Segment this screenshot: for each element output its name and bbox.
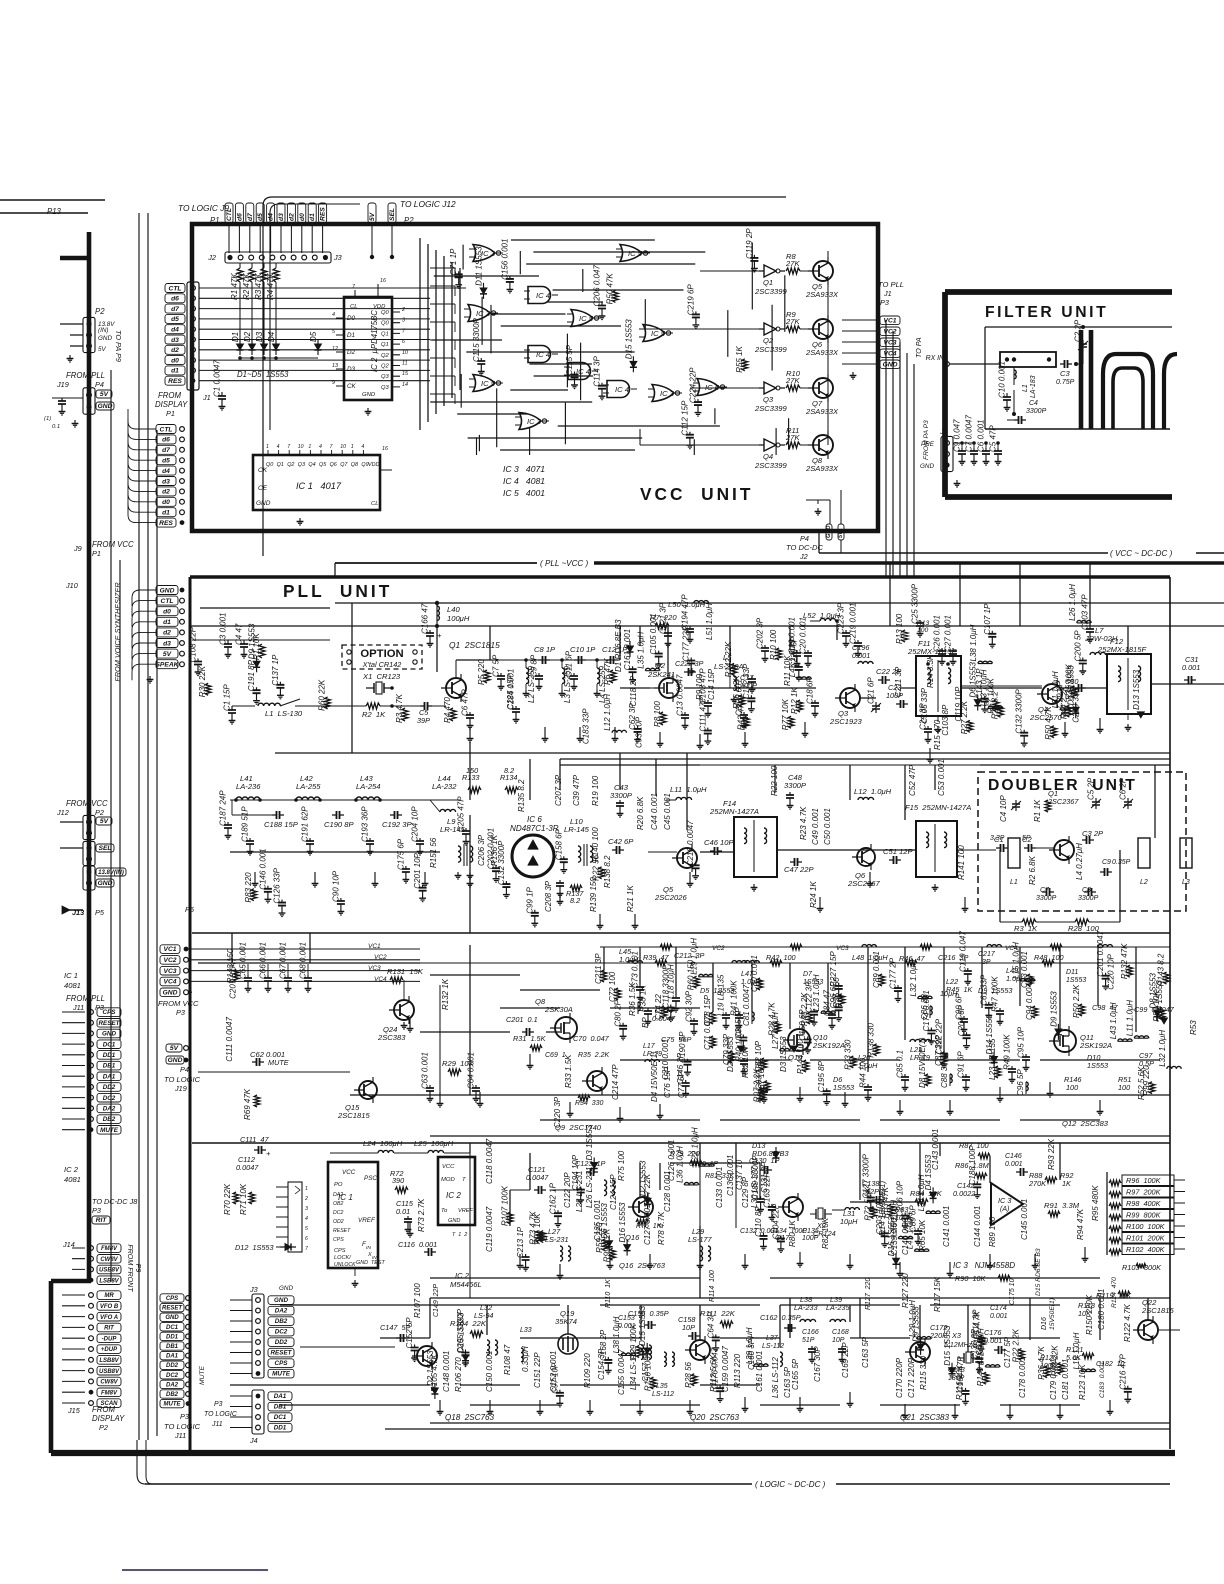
svg-text:CW8V: CW8V (100, 1380, 118, 1386)
svg-text:C50 0.001: C50 0.001 (823, 808, 832, 845)
svg-text:R113 220: R113 220 (733, 1353, 742, 1388)
svg-text:DB2: DB2 (166, 1392, 179, 1398)
svg-text:C229 33P: C229 33P (1071, 687, 1080, 723)
svg-text:C126 33P: C126 33P (273, 867, 282, 903)
svg-text:FILTER UNIT: FILTER UNIT (985, 304, 1108, 321)
svg-text:2SK30A: 2SK30A (544, 1005, 573, 1014)
svg-text:1K: 1K (1062, 1179, 1072, 1188)
svg-text:BP: BP (641, 1017, 650, 1028)
svg-text:P4: P4 (800, 534, 809, 543)
svg-text:IC 6: IC 6 (527, 815, 542, 824)
svg-text:C189 3300P: C189 3300P (751, 1155, 760, 1200)
svg-text:R100 100K: R100 100K (1126, 1222, 1166, 1231)
svg-text:L12 1.0μH: L12 1.0μH (603, 694, 612, 731)
svg-text:1: 1 (266, 444, 269, 450)
svg-text:R109 220: R109 220 (583, 1353, 592, 1388)
svg-text:X1 CR123: X1 CR123 (362, 672, 401, 681)
svg-text:RX IN: RX IN (926, 355, 944, 362)
svg-text:C5 2P: C5 2P (1087, 777, 1096, 800)
svg-text:C201 0.1: C201 0.1 (506, 1015, 538, 1024)
svg-text:D12 1S553: D12 1S553 (235, 1243, 274, 1252)
svg-text:GND: GND (920, 463, 934, 470)
svg-text:C6 0.001: C6 0.001 (977, 420, 986, 452)
svg-text:C161 0.001: C161 0.001 (623, 629, 632, 670)
svg-text:C146 0.001: C146 0.001 (258, 848, 267, 889)
svg-text:R3 4.7K: R3 4.7K (395, 693, 404, 723)
svg-text:C67 0.001: C67 0.001 (279, 942, 288, 979)
svg-text:C148 0.001: C148 0.001 (442, 1351, 451, 1392)
svg-text:C143 1P: C143 1P (975, 668, 984, 700)
svg-text:R28 56: R28 56 (684, 1361, 693, 1387)
svg-text:R55 1K: R55 1K (735, 345, 744, 372)
svg-text:3300P: 3300P (784, 781, 807, 790)
svg-text:C215 5P: C215 5P (734, 1007, 743, 1039)
svg-text:R107 100K: R107 100K (500, 1185, 509, 1226)
svg-text:C177 2P: C177 2P (889, 957, 898, 989)
svg-text:C166: C166 (802, 1329, 819, 1336)
svg-text:-DUP: -DUP (102, 1336, 118, 1342)
svg-text:R102 400K: R102 400K (1126, 1245, 1166, 1254)
svg-text:DISPLAY: DISPLAY (155, 400, 188, 409)
svg-text:L19 LB-135: L19 LB-135 (717, 974, 726, 1016)
svg-text:IC 5: IC 5 (705, 383, 720, 392)
svg-text:3300P: 3300P (610, 791, 633, 800)
svg-text:d4: d4 (171, 327, 179, 334)
svg-text:C61 33P: C61 33P (979, 974, 988, 1006)
svg-text:DC1: DC1 (103, 1041, 116, 1048)
svg-text:5: 5 (305, 1226, 308, 1232)
svg-text:LA-236: LA-236 (236, 782, 261, 791)
svg-text:D3: D3 (347, 366, 356, 373)
svg-text:D1~D5 1S553: D1~D5 1S553 (237, 370, 289, 379)
svg-text:GND: GND (448, 1218, 460, 1224)
svg-text:VC3: VC3 (836, 945, 849, 952)
svg-text:51P: 51P (802, 1337, 815, 1344)
svg-text:C95 10P: C95 10P (1017, 1026, 1026, 1058)
svg-text:DB2: DB2 (275, 1318, 288, 1325)
svg-text:C91 6P: C91 6P (957, 1051, 966, 1078)
svg-text:d6: d6 (162, 437, 170, 444)
svg-text:OB2: OB2 (333, 1201, 343, 1207)
svg-text:C85 0.1: C85 0.1 (896, 1050, 905, 1078)
svg-text:R50 2.2K: R50 2.2K (1072, 984, 1081, 1018)
svg-text:C64 0.001: C64 0.001 (467, 1052, 476, 1089)
svg-text:R4 47K: R4 47K (266, 273, 275, 300)
svg-text:J2: J2 (207, 253, 216, 262)
svg-text:16: 16 (382, 446, 388, 452)
svg-text:6: 6 (305, 1236, 308, 1242)
svg-text:CW8V: CW8V (100, 1257, 118, 1263)
svg-text:Q2: Q2 (381, 353, 390, 359)
svg-text:P1: P1 (92, 549, 101, 558)
svg-text:C118 0.0047: C118 0.0047 (485, 1138, 494, 1184)
svg-text:L40: L40 (447, 605, 460, 614)
svg-text:GND: GND (98, 335, 112, 342)
svg-text:C111 0.0047: C111 0.0047 (225, 1017, 234, 1062)
svg-text:DC1: DC1 (166, 1325, 179, 1331)
svg-text:CTL: CTL (169, 285, 182, 292)
svg-text:R122 4.7K: R122 4.7K (1123, 1304, 1132, 1342)
svg-text:R32 10K: R32 10K (741, 1046, 750, 1078)
svg-text:C219 6P: C219 6P (686, 284, 695, 316)
svg-text:3300P: 3300P (1078, 895, 1099, 902)
svg-text:R71 10K: R71 10K (239, 1183, 248, 1215)
svg-text:TO LOGIC: TO LOGIC (164, 1422, 201, 1431)
svg-text:C206 3P: C206 3P (477, 834, 486, 866)
svg-text:d1: d1 (309, 213, 316, 221)
svg-text:VCC: VCC (342, 1169, 356, 1176)
svg-text:R21 1K: R21 1K (626, 885, 635, 912)
svg-text:DB1: DB1 (103, 1063, 116, 1070)
svg-text:2SA933X: 2SA933X (805, 407, 839, 416)
svg-text:L32 1.0μH: L32 1.0μH (909, 960, 918, 997)
svg-text:27K: 27K (785, 376, 800, 385)
svg-text:C205 3300P: C205 3300P (456, 1308, 465, 1353)
svg-text:C206 0.047: C206 0.047 (593, 265, 602, 307)
svg-text:800K: 800K (1144, 1263, 1162, 1272)
svg-text:R5 220: R5 220 (477, 659, 486, 685)
svg-text:FROM VCC: FROM VCC (158, 999, 199, 1008)
svg-text:C116 0.001: C116 0.001 (398, 1240, 437, 1249)
svg-text:FROM VOICE SYNTHESIZER: FROM VOICE SYNTHESIZER (113, 582, 122, 682)
svg-text:15: 15 (402, 371, 409, 377)
svg-text:LS-112: LS-112 (652, 1391, 674, 1398)
svg-text:GND: GND (256, 500, 271, 507)
svg-text:R22 56: R22 56 (592, 854, 601, 880)
svg-text:C201 10P: C201 10P (413, 852, 422, 888)
svg-text:P3: P3 (176, 1008, 185, 1017)
svg-text:TO LOGIC: TO LOGIC (164, 1075, 201, 1084)
svg-text:100: 100 (1118, 1083, 1130, 1092)
svg-text:D13 1S553: D13 1S553 (1132, 669, 1141, 710)
svg-text:IC 4: IC 4 (615, 385, 629, 394)
svg-text:C51 12P: C51 12P (883, 847, 913, 856)
svg-text:CTL: CTL (160, 426, 173, 433)
svg-text:LS-112: LS-112 (762, 1343, 784, 1350)
svg-text:C222 22P: C222 22P (935, 1018, 944, 1054)
svg-text:0.0047: 0.0047 (652, 1014, 676, 1023)
svg-text:R34 330: R34 330 (575, 1100, 604, 1107)
svg-text:L35: L35 (656, 1383, 668, 1390)
svg-text:TO DC-DC: TO DC-DC (786, 543, 823, 552)
svg-text:GND: GND (160, 587, 175, 594)
svg-text:GND: GND (274, 1297, 288, 1304)
svg-text:VREF: VREF (358, 1217, 376, 1224)
svg-text:C211 3P: C211 3P (594, 953, 603, 984)
svg-text:RES: RES (320, 207, 327, 221)
svg-text:TO LOGIC J9: TO LOGIC J9 (178, 203, 229, 213)
svg-text:J19: J19 (174, 1084, 187, 1093)
svg-text:3300P: 3300P (1026, 408, 1047, 415)
svg-text:10: 10 (340, 444, 346, 450)
svg-text:27K: 27K (785, 259, 800, 268)
svg-text:OD2: OD2 (333, 1219, 344, 1225)
svg-text:d2: d2 (171, 347, 179, 354)
svg-text:LOCK/: LOCK/ (334, 1255, 352, 1261)
svg-text:FROM PA P3: FROM PA P3 (923, 420, 930, 460)
svg-text:R80 1K: R80 1K (788, 1220, 797, 1247)
svg-text:Q6: Q6 (330, 462, 337, 468)
svg-text:C90 10P: C90 10P (331, 870, 340, 902)
svg-text:J11: J11 (211, 1421, 223, 1428)
svg-text:R117 15K: R117 15K (933, 1276, 942, 1312)
svg-text:11: 11 (402, 361, 408, 367)
svg-text:CPS: CPS (103, 1009, 117, 1016)
svg-text:5V: 5V (163, 651, 172, 658)
svg-text:0.35P: 0.35P (1112, 859, 1131, 866)
svg-text:R24 1K: R24 1K (809, 881, 818, 908)
svg-text:R28 100: R28 100 (1068, 924, 1100, 933)
svg-text:D15 1S553: D15 1S553 (943, 1325, 952, 1366)
svg-text:T: T (462, 1177, 466, 1183)
svg-text:C4: C4 (1029, 400, 1038, 407)
svg-text:C150 6P: C150 6P (798, 1009, 807, 1041)
svg-text:d1: d1 (162, 510, 170, 517)
svg-text:0.001: 0.001 (852, 651, 870, 660)
svg-text:Q0: Q0 (381, 321, 390, 327)
svg-text:J1: J1 (202, 393, 211, 402)
svg-text:Q16 2SC763: Q16 2SC763 (619, 1261, 666, 1270)
svg-text:C68 0.001: C68 0.001 (299, 942, 308, 979)
svg-text:C45 0.001: C45 0.001 (663, 793, 672, 830)
svg-text:1S553: 1S553 (1066, 977, 1086, 984)
svg-text:C63 0.001: C63 0.001 (421, 1052, 430, 1089)
svg-text:12: 12 (332, 346, 338, 352)
svg-text:C190 5P: C190 5P (678, 1031, 687, 1063)
svg-text:DC2: DC2 (103, 1095, 116, 1102)
svg-text:LSB8V: LSB8V (99, 1278, 119, 1284)
svg-text:R12 1K: R12 1K (790, 687, 799, 714)
svg-text:8.2: 8.2 (570, 896, 580, 905)
svg-text:D9 1S553: D9 1S553 (248, 623, 257, 659)
svg-text:R101 200K: R101 200K (1126, 1234, 1166, 1243)
svg-text:Q18 2SC763: Q18 2SC763 (445, 1413, 495, 1422)
svg-text:C208 3P: C208 3P (544, 880, 553, 912)
svg-text:R108 47: R108 47 (503, 1344, 512, 1375)
svg-text:L32 1.0μH: L32 1.0μH (1158, 1030, 1167, 1067)
svg-text:FROM PLL: FROM PLL (66, 994, 105, 1003)
svg-text:D2 1S553: D2 1S553 (426, 1350, 435, 1386)
svg-text:C168 2P: C168 2P (599, 1329, 608, 1361)
svg-text:C192 3P: C192 3P (382, 820, 412, 829)
svg-text:C163 5P: C163 5P (861, 1336, 870, 1368)
svg-text:D1 RD6.8E B3: D1 RD6.8E B3 (614, 619, 623, 672)
svg-text:DA1: DA1 (166, 1354, 179, 1360)
svg-text:C13 0.0047: C13 0.0047 (676, 674, 685, 716)
svg-text:X3: X3 (951, 1331, 961, 1340)
svg-text:C6 47P: C6 47P (461, 689, 470, 716)
svg-text:RIT: RIT (104, 1326, 115, 1332)
svg-text:MOD: MOD (441, 1177, 455, 1183)
svg-text:R99 220: R99 220 (1142, 1065, 1151, 1096)
svg-text:C150 0.001: C150 0.001 (485, 1351, 494, 1392)
svg-text:P2: P2 (99, 1423, 108, 1432)
svg-text:270K: 270K (1028, 1179, 1047, 1188)
svg-text:J2: J2 (799, 552, 808, 561)
svg-text:R131 15K: R131 15K (387, 967, 424, 976)
svg-text:L29 1.0μH: L29 1.0μH (908, 1300, 917, 1337)
svg-text:TO DC-DC J8: TO DC-DC J8 (92, 1197, 138, 1206)
svg-text:J9: J9 (73, 544, 82, 553)
svg-text:R73 4.7K: R73 4.7K (529, 1211, 538, 1245)
svg-text:L38 1.0μH: L38 1.0μH (612, 1316, 621, 1353)
svg-text:L22 1.0μH: L22 1.0μH (691, 1127, 700, 1164)
svg-text:R107 100: R107 100 (413, 1283, 422, 1318)
svg-text:0.001: 0.001 (990, 1313, 1008, 1320)
svg-text:C211 3P: C211 3P (894, 666, 903, 697)
svg-text:C18 6P: C18 6P (806, 677, 815, 704)
svg-text:C47 22P: C47 22P (784, 865, 814, 874)
svg-text:DA2: DA2 (333, 1192, 343, 1198)
svg-text:16: 16 (380, 278, 386, 284)
svg-text:C9 8P: C9 8P (530, 654, 539, 677)
svg-text:R29 100K: R29 100K (629, 1323, 638, 1359)
svg-text:RES: RES (159, 520, 173, 527)
svg-text:P3: P3 (180, 1412, 189, 1421)
svg-text:1: 1 (305, 1186, 308, 1192)
svg-text:R96 100K: R96 100K (1126, 1176, 1162, 1185)
svg-text:MUTE: MUTE (199, 1366, 206, 1385)
svg-text:D16 1S553: D16 1S553 (618, 1202, 627, 1243)
svg-text:35K74: 35K74 (555, 1317, 577, 1326)
svg-text:DA2: DA2 (166, 1382, 179, 1388)
svg-text:DA1: DA1 (274, 1393, 287, 1400)
svg-text:R89 100: R89 100 (988, 1216, 997, 1247)
svg-text:L1: L1 (1010, 879, 1018, 886)
svg-text:Q2: Q2 (287, 462, 294, 468)
svg-text:DC2: DC2 (166, 1373, 179, 1379)
svg-text:8.2: 8.2 (504, 766, 514, 775)
svg-text:R70 22K: R70 22K (223, 1183, 232, 1215)
svg-text:R50 47K: R50 47K (606, 273, 615, 305)
svg-text:1: 1 (351, 444, 354, 450)
svg-text:(IN): (IN) (98, 327, 109, 334)
svg-text:C189 51P: C189 51P (241, 806, 250, 842)
svg-text:D8 15V50E(1): D8 15V50E(1) (918, 1037, 927, 1088)
svg-text:GND: GND (279, 1285, 293, 1292)
svg-text:IC 1 4017: IC 1 4017 (296, 481, 342, 491)
svg-text:C3: C3 (1060, 369, 1070, 378)
svg-text:C10 1P: C10 1P (570, 645, 596, 654)
svg-text:R99 800K: R99 800K (1126, 1211, 1162, 1220)
svg-text:C26 0.001: C26 0.001 (933, 615, 942, 652)
svg-text:C49 0.001: C49 0.001 (811, 808, 820, 845)
svg-text:FM8V: FM8V (101, 1390, 118, 1396)
svg-text:0.1: 0.1 (52, 424, 60, 430)
svg-text:R94 47K: R94 47K (1076, 1208, 1085, 1240)
svg-text:D2 1S553: D2 1S553 (726, 1036, 735, 1072)
svg-text:L17: L17 (643, 1043, 656, 1050)
svg-text:C46 10P: C46 10P (704, 838, 734, 847)
svg-text:UNLOCK: UNLOCK (334, 1262, 356, 1268)
svg-text:IC 3: IC 3 (527, 417, 542, 426)
svg-text:Q1: Q1 (763, 278, 773, 287)
svg-text:P5: P5 (95, 908, 105, 917)
svg-text:2SA933X: 2SA933X (805, 290, 839, 299)
svg-text:IN: IN (366, 1245, 371, 1251)
svg-text:C183 33P: C183 33P (582, 708, 591, 744)
svg-text:C151 22P: C151 22P (533, 1352, 542, 1388)
svg-text:VREF: VREF (458, 1208, 474, 1214)
svg-text:0.001: 0.001 (1005, 1161, 1023, 1168)
svg-text:150: 150 (466, 766, 478, 775)
svg-text:IC 4: IC 4 (536, 350, 550, 359)
svg-text:P13: P13 (47, 207, 62, 216)
svg-text:R21 8.2: R21 8.2 (991, 691, 1000, 720)
svg-text:C161 0.001: C161 0.001 (755, 1351, 764, 1392)
svg-text:CR124: CR124 (813, 1229, 836, 1238)
svg-text:L2: L2 (1140, 879, 1148, 886)
svg-text:CPS: CPS (166, 1296, 178, 1302)
svg-text:CE: CE (258, 485, 268, 492)
svg-text:4: 4 (277, 444, 280, 450)
svg-text:DD2: DD2 (166, 1363, 179, 1369)
svg-text:R13 100: R13 100 (895, 613, 904, 644)
svg-text:C93 0.001: C93 0.001 (1020, 951, 1029, 988)
svg-text:Q3: Q3 (381, 374, 390, 380)
svg-text:2: 2 (304, 1196, 308, 1202)
svg-text:2SC1923: 2SC1923 (829, 717, 862, 726)
svg-text:D4 1S553: D4 1S553 (924, 1154, 933, 1190)
svg-text:R78 4.7K: R78 4.7K (657, 1211, 666, 1245)
svg-text:d7: d7 (171, 306, 179, 313)
svg-text:C225 15P: C225 15P (506, 673, 515, 709)
svg-text:R50 4.7K: R50 4.7K (1044, 706, 1053, 740)
svg-text:3: 3 (305, 1206, 308, 1212)
svg-text:C171 220P: C171 220P (907, 1357, 916, 1398)
svg-text:DOUBLER UNIT: DOUBLER UNIT (988, 777, 1137, 794)
svg-text:L23 1.0μH: L23 1.0μH (812, 974, 821, 1011)
svg-text:100: 100 (1066, 1083, 1078, 1092)
svg-text:C219 0.001: C219 0.001 (849, 603, 858, 644)
svg-text:F15 252MN-1427A: F15 252MN-1427A (905, 803, 971, 812)
svg-text:(A): (A) (1000, 1206, 1009, 1213)
svg-text:CK: CK (258, 467, 268, 474)
svg-text:J3: J3 (333, 253, 342, 262)
svg-text:C103 47P: C103 47P (699, 668, 708, 704)
svg-text:L35 1.0μH: L35 1.0μH (889, 1200, 898, 1237)
svg-text:LR-79: LR-79 (643, 1051, 662, 1058)
svg-text:TO PA P9: TO PA P9 (114, 330, 123, 362)
svg-text:Q4: Q4 (308, 462, 315, 468)
svg-text:R98 400K: R98 400K (1126, 1199, 1162, 1208)
svg-text:LA-232: LA-232 (432, 782, 457, 791)
svg-text:d7: d7 (247, 213, 254, 221)
svg-text:P1: P1 (166, 409, 175, 418)
svg-text:C3 2P: C3 2P (1082, 829, 1104, 838)
svg-text:P2: P2 (95, 307, 105, 316)
svg-text:IC 5: IC 5 (579, 314, 594, 323)
svg-text:C103 8P: C103 8P (941, 704, 950, 736)
svg-text:IC 3: IC 3 (998, 1196, 1011, 1205)
svg-text:Q1 2SC1815: Q1 2SC1815 (449, 640, 500, 650)
svg-text:D1: D1 (231, 332, 240, 342)
svg-text:39P: 39P (417, 716, 430, 725)
svg-text:(1): (1) (44, 416, 51, 422)
svg-text:J19: J19 (56, 380, 69, 389)
svg-text:D4 15V50E(1): D4 15V50E(1) (650, 1051, 659, 1102)
svg-text:100μH: 100μH (447, 614, 470, 623)
svg-text:IC 4 4081: IC 4 4081 (503, 476, 545, 486)
svg-text:L19 1.0μH: L19 1.0μH (1072, 1332, 1081, 1369)
svg-text:CK: CK (347, 383, 357, 390)
svg-text:D4 1S553: D4 1S553 (1155, 980, 1164, 1016)
svg-text:L35 1.0μH: L35 1.0μH (636, 632, 645, 669)
svg-text:VDD: VDD (368, 462, 379, 468)
svg-text:C71 0.001: C71 0.001 (703, 1013, 712, 1050)
svg-text:C145 0.001: C145 0.001 (1020, 1199, 1029, 1240)
svg-text:CTL: CTL (226, 208, 233, 221)
